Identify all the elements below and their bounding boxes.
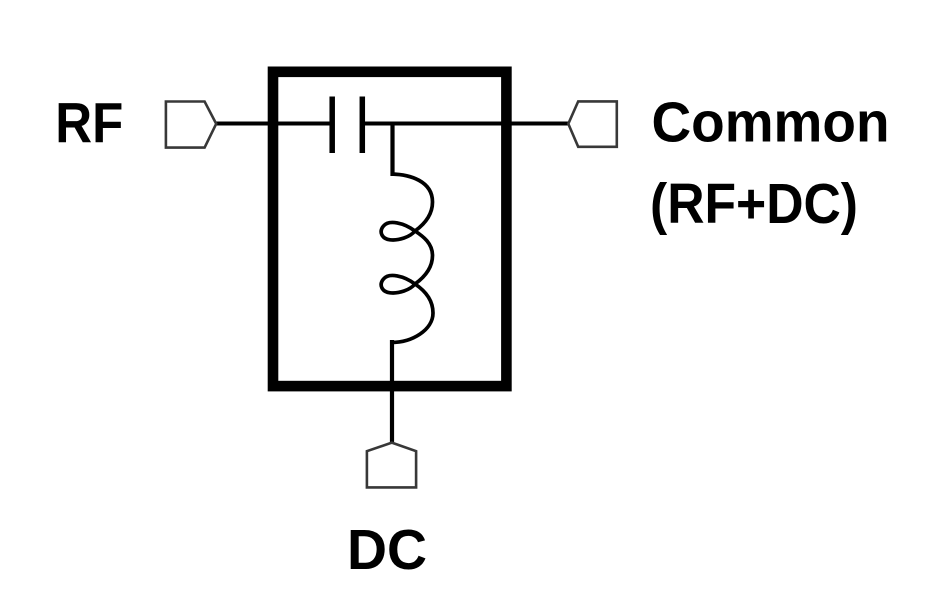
capacitor right plate [360, 97, 366, 154]
wire junction to inductor top [390, 122, 394, 177]
wire inductor bottom to DC port [390, 340, 394, 442]
bias tee enclosure box [273, 72, 506, 386]
capacitor left plate [329, 97, 335, 154]
wire RF port to capacitor [216, 122, 334, 126]
wire capacitor to Common port [361, 122, 568, 126]
svg-text:DC: DC [347, 518, 427, 582]
svg-text:(RF+DC): (RF+DC) [650, 172, 858, 236]
svg-text:RF: RF [55, 92, 123, 156]
svg-text:Common: Common [652, 91, 890, 155]
port RF (pentagon connector) [166, 102, 216, 148]
port Common (pentagon connector) [568, 101, 617, 146]
inductor coil [381, 174, 433, 343]
port DC (pentagon connector) [367, 443, 416, 488]
